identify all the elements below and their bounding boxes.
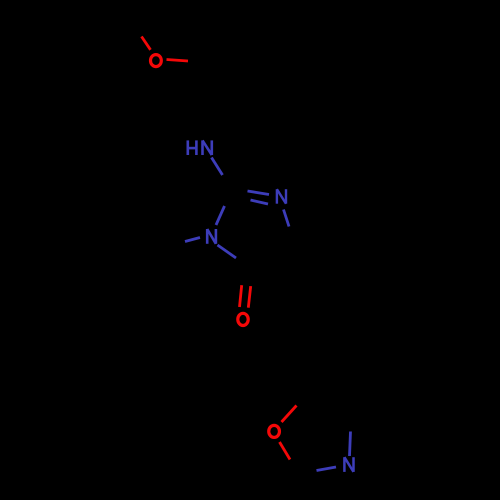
- bond C5=O double (red halves): [240, 285, 242, 307]
- bond N1-CH3 (blue half): [185, 238, 200, 242]
- bond N3-C4 (blue half): [284, 210, 290, 227]
- atom O (ketone oxygen label): [238, 313, 248, 325]
- bond N3-C3a benzoxazole (blue half): [350, 432, 351, 457]
- bond HN-C2 (blue half): [212, 158, 223, 176]
- atom N1 (ring nitrogen label): [207, 229, 216, 244]
- bond C2-N3 benzoxazole (blue half): [317, 467, 337, 471]
- atom O1 (benzoxazole oxygen label): [269, 425, 280, 437]
- bond C7a-O1 benzoxazole (red half): [282, 406, 297, 423]
- bond O-C aryl (red half): [167, 60, 189, 62]
- atom N3 (ring nitrogen label): [277, 189, 286, 204]
- atom N3 (benzoxazole nitrogen label): [344, 457, 353, 472]
- bond N1-C5 (blue half): [218, 245, 237, 258]
- bond N1-C2 (blue half): [216, 206, 225, 225]
- bond C2=N3 double (blue halves): [248, 191, 270, 195]
- atom HN (amine label): [188, 140, 212, 155]
- bond CH3-O (methoxy, red half): [142, 37, 151, 50]
- atom O (methoxy oxygen label): [151, 55, 162, 67]
- bond O1-C2 benzoxazole (red half): [280, 442, 291, 460]
